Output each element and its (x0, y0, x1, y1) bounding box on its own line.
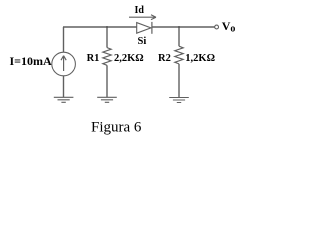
wire left vertical (source to top) (63, 27, 65, 52)
svg-text:I=10mA: I=10mA (10, 54, 53, 68)
svg-text:2,2KΩ: 2,2KΩ (114, 53, 144, 64)
wire top right horizontal (152, 26, 215, 28)
svg-text:Vo: Vo (222, 19, 236, 35)
svg-text:Figura 6: Figura 6 (91, 120, 142, 136)
junction node R1/top wire (106, 26, 108, 28)
svg-text:R1: R1 (87, 53, 100, 64)
wire R1 top vertical (106, 27, 108, 48)
svg-text:Si: Si (138, 36, 147, 47)
diode D triangle (137, 23, 151, 34)
svg-text:1,2KΩ: 1,2KΩ (185, 53, 215, 64)
wire R2 bottom vertical (178, 64, 180, 98)
wire R2 top vertical (178, 27, 180, 46)
Id current arrow (129, 15, 156, 20)
ground (right, R2) (169, 98, 189, 103)
wire top left horizontal (63, 26, 137, 28)
current source I circle (52, 52, 76, 76)
resistor R2 zigzag (175, 46, 183, 64)
junction node R2/top wire (178, 26, 180, 28)
wire source to ground (63, 76, 65, 98)
svg-text:R2: R2 (158, 53, 171, 64)
diode cathode bar (151, 22, 153, 34)
resistor R1 zigzag (103, 48, 111, 66)
terminal Vo circle (215, 25, 219, 29)
wire R1 bottom vertical (106, 65, 108, 97)
ground (middle, R1) (97, 97, 117, 102)
current source arrow (61, 56, 66, 71)
ground (left, current source) (54, 97, 74, 102)
svg-text:Id: Id (135, 5, 145, 16)
